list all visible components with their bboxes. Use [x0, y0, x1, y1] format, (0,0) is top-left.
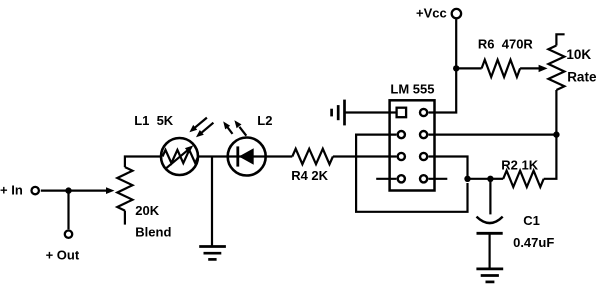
wire pin 7 to junction: [429, 134, 557, 136]
svg-text:+ Out: + Out: [46, 247, 80, 262]
svg-text:R6 470R: R6 470R: [478, 36, 534, 51]
pin 1 (square): [397, 108, 407, 118]
ground below L1/L2: [199, 245, 226, 248]
node Vcc junction: [453, 65, 459, 71]
wire pin 2 loop (to pin 6 node): [356, 135, 467, 212]
wire pin 5 stub: [429, 178, 448, 180]
pin 2: [398, 131, 405, 138]
pin 3: [398, 153, 405, 160]
light arrow into L1 b: [201, 123, 214, 134]
potentiometer P1 20K Blend: [117, 167, 132, 211]
photocell L1 5K: [161, 138, 198, 175]
svg-text:0.47uF: 0.47uF: [513, 235, 554, 250]
ground below C1: [476, 268, 503, 271]
svg-text:Blend: Blend: [135, 225, 171, 240]
svg-text:20K: 20K: [135, 203, 159, 218]
node pin2/pin6 junction: [464, 176, 470, 182]
node input junction: [65, 187, 71, 193]
pin 6: [420, 153, 427, 160]
resistor R2 1K: [503, 171, 544, 187]
wire Vcc junction to R6: [456, 67, 481, 69]
capacitor C1 0.47uF: [489, 179, 491, 215]
potentiometer P2 10K Rate: [548, 46, 564, 91]
light arrow into L1 a: [194, 118, 207, 129]
pin 8: [420, 109, 427, 116]
op-amp U1 LM 555 body: [390, 100, 435, 190]
wire pot top to L1: [125, 157, 161, 168]
wire R2 to node: [490, 178, 503, 180]
svg-text:L1 5K: L1 5K: [134, 113, 174, 128]
wire wiper arrow to pot P1: [69, 190, 108, 192]
pin 5: [420, 175, 427, 182]
node C1/R2 junction: [487, 176, 493, 182]
wire junction to Out: [67, 191, 69, 230]
svg-text:R4 2K: R4 2K: [291, 168, 328, 183]
wire In to junction: [41, 190, 67, 192]
LED L2: [228, 138, 266, 176]
svg-text:10K: 10K: [566, 47, 591, 62]
wire L1 to L2: [198, 155, 226, 157]
resistor R4 2K: [292, 149, 333, 164]
wire pin 6 down to node: [429, 157, 468, 179]
svg-text:L2: L2: [257, 113, 272, 128]
wire R4 to pin 2: [333, 155, 397, 157]
pin 7: [420, 131, 427, 138]
wire ground to pin 1: [345, 111, 397, 113]
node + In terminal: [32, 187, 39, 194]
light arrow out of L2 b: [239, 127, 246, 136]
resistor R6 470R: [482, 60, 520, 77]
svg-text:R2 1K: R2 1K: [501, 158, 538, 173]
ground at pin 1: [343, 100, 346, 126]
wire junction to ground tap: [211, 157, 213, 247]
wire R6 wiper arrow to P2: [520, 67, 540, 69]
svg-text:C1: C1: [523, 213, 540, 228]
wire L2 to R4: [266, 155, 292, 157]
svg-text:+ In: + In: [0, 182, 23, 197]
node +Vcc terminal: [452, 9, 461, 18]
wire node to C1 node: [468, 178, 491, 180]
svg-text:LM 555: LM 555: [390, 81, 434, 96]
wire pot bottom to R2: [544, 90, 557, 179]
node pot/pin7 junction: [553, 131, 559, 137]
wire pin 4 stub: [376, 178, 396, 180]
node + Out terminal: [65, 231, 72, 238]
pin 4: [398, 175, 405, 182]
light arrow out of L2 a: [227, 127, 232, 134]
wire pin 8 to Vcc: [429, 19, 457, 112]
svg-text:Rate: Rate: [567, 69, 597, 84]
svg-text:+Vcc: +Vcc: [416, 6, 447, 21]
